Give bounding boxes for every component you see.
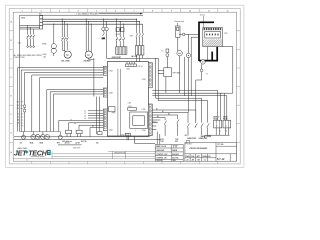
svg-text:10: 10 <box>84 111 86 113</box>
svg-text:M1 M2: M1 M2 <box>116 34 121 36</box>
svg-text:20A 1 RED: 20A 1 RED <box>61 60 70 63</box>
svg-text:CN6: CN6 <box>126 68 130 70</box>
svg-text:PROJECT: PROJECT <box>185 143 192 145</box>
bottom bus wires <box>14 137 161 145</box>
transformer T1 <box>51 24 56 56</box>
wires to legend table <box>157 132 160 145</box>
svg-text:3: 3 <box>59 11 60 13</box>
wire right loop 4 <box>152 91 217 121</box>
svg-text:CONTROL 110V: CONTROL 110V <box>156 154 167 156</box>
connector CN8 <box>103 88 107 97</box>
fuse F1 F2 F3 <box>135 46 144 55</box>
svg-text:M: M <box>87 53 89 57</box>
wire M2 tail <box>89 58 94 96</box>
heater element R1 striped <box>116 47 127 55</box>
svg-text:GR: GR <box>185 135 187 137</box>
svg-text:TECH: TECH <box>28 148 47 157</box>
wires CN6 feed <box>127 62 135 64</box>
wire supply entry L3 <box>20 28 40 30</box>
timer EPTIMEL box <box>164 68 172 77</box>
sensor block A3 <box>98 132 102 135</box>
svg-text:CONDUCTORS: CONDUCTORS <box>14 57 25 59</box>
svg-text:CN4: CN4 <box>142 130 146 132</box>
svg-text:24: 24 <box>74 123 76 125</box>
svg-text:110V: 110V <box>160 139 163 141</box>
switch S2 <box>22 132 26 140</box>
relay contact K3 <box>164 121 166 136</box>
thermostat TH1 <box>58 132 62 140</box>
inline connector J2 <box>24 109 26 112</box>
connector CN5 <box>148 104 152 136</box>
svg-text:TGR TOP: TGR TOP <box>73 147 81 149</box>
circuit breaker CB1 <box>27 25 35 47</box>
relay contact K8 <box>158 96 209 136</box>
svg-text:CN 10: CN 10 <box>137 66 142 68</box>
svg-text:10: 10 <box>189 11 191 13</box>
svg-text:2B: 2B <box>17 123 19 125</box>
svg-text:1A 6.3A: 1A 6.3A <box>131 55 138 58</box>
display module <box>130 112 148 128</box>
svg-text:20A RED: 20A RED <box>84 60 92 63</box>
relay contact K6 <box>195 122 197 128</box>
svg-text:4: 4 <box>78 11 79 13</box>
bus line 2 <box>43 21 140 23</box>
connector CN9 <box>148 63 152 88</box>
heating element E1 <box>203 28 223 47</box>
float switch A2 <box>76 129 82 136</box>
contactor K1 <box>61 19 68 51</box>
svg-text:CB1: CB1 <box>18 42 21 44</box>
border zone ticks <box>9 9 240 164</box>
junction dots <box>53 19 140 25</box>
wire sensor leader <box>203 16 205 28</box>
wire vert to RL2 <box>223 93 225 120</box>
svg-text:110 TGP: 110 TGP <box>81 141 87 143</box>
door switch S1 <box>176 23 181 51</box>
wires CN2 stubs <box>59 111 104 137</box>
zone numbers <box>11 11 229 155</box>
svg-text:2: 2 <box>41 11 42 13</box>
relay contact K4 <box>177 119 179 135</box>
svg-text:PP3: PP3 <box>112 113 115 115</box>
float switch A1 <box>66 129 72 136</box>
fuse FU1 circle <box>102 19 105 40</box>
svg-text:2: 2 <box>226 125 227 127</box>
svg-text:12: 12 <box>84 113 86 115</box>
svg-text:16: 16 <box>84 118 86 120</box>
svg-text:JET: JET <box>14 148 27 157</box>
svg-text:TTT: TTT <box>173 144 178 148</box>
legend table <box>155 145 183 162</box>
relay coil Y4 circle <box>201 60 205 64</box>
fuse F1 group wires <box>107 19 159 62</box>
svg-text:737-100: 737-100 <box>217 144 223 146</box>
wires EPTIMEL <box>156 58 166 96</box>
heater contact K2 <box>116 19 125 47</box>
title block <box>185 143 237 162</box>
svg-text:TH1: TH1 <box>57 142 60 144</box>
wires internal verticals <box>118 69 121 136</box>
solenoid Y1 <box>166 49 169 68</box>
pressure switch B3 <box>41 132 46 140</box>
title texts <box>186 144 224 162</box>
svg-text:14: 14 <box>84 115 86 117</box>
pressure switch B4 <box>45 134 50 139</box>
wire component tie <box>20 131 61 133</box>
wire neutral bus L <box>20 15 143 131</box>
wires relay drops <box>205 128 230 138</box>
wire arrow feed <box>99 13 143 15</box>
wire supply entry L2 <box>20 26 40 28</box>
labels bottom components <box>20 141 99 144</box>
svg-text:L1/L2 (BRN) 3 PH 208V: L1/L2 (BRN) 3 PH 208V <box>77 13 99 15</box>
svg-text:B2: B2 <box>17 101 19 103</box>
svg-text:WIRE COLOR: WIRE COLOR <box>156 146 167 148</box>
svg-text:BLU/YEL: BLU/YEL <box>172 158 179 160</box>
border frame inner <box>13 12 236 161</box>
svg-text:FUSE: FUSE <box>43 54 47 56</box>
svg-text:Remote tank: Remote tank <box>175 20 185 23</box>
relay contact K7 <box>156 93 204 135</box>
svg-text:CN9: CN9 <box>142 79 146 81</box>
motor M2 wires <box>86 19 91 51</box>
svg-text:2: 2 <box>216 125 217 127</box>
svg-text:M: M <box>66 53 68 57</box>
svg-text:GRN: GRN <box>172 160 175 162</box>
connector CN1 <box>125 133 130 136</box>
svg-text:1: 1 <box>22 11 23 13</box>
wires right column drops <box>180 34 202 121</box>
svg-text:8: 8 <box>152 11 153 13</box>
revision strip lines <box>13 151 155 161</box>
labels relay wires <box>160 130 227 142</box>
svg-text:CN2: CN2 <box>109 130 113 132</box>
wires CN8 left loops <box>47 90 104 132</box>
connector CN3 <box>103 66 107 75</box>
wires CN3 left loops <box>18 68 104 132</box>
wire element internal <box>207 47 209 61</box>
small box above title <box>186 141 189 144</box>
pressure switch B2 <box>35 134 40 139</box>
legend texts <box>156 146 179 162</box>
motor M2 <box>85 51 92 58</box>
connector PP3 <box>109 107 115 112</box>
svg-text:DESCRIPTION: DESCRIPTION <box>114 152 126 154</box>
control board A1 <box>107 62 148 136</box>
svg-text:CN3: CN3 <box>109 71 113 73</box>
svg-text:A3: A3 <box>96 141 98 144</box>
logo JET-TECH <box>14 148 51 158</box>
wires CN5 fan-out <box>152 110 196 130</box>
connector CN2 <box>103 109 107 131</box>
arrowhead <box>140 13 142 15</box>
svg-text:Sensor: Sensor <box>200 13 206 16</box>
svg-text:DRN: DRN <box>208 136 211 138</box>
svg-text:8-7-12: 8-7-12 <box>217 157 225 161</box>
sheet edge <box>5 5 244 167</box>
wire right loop 2 <box>152 96 227 121</box>
element hatch <box>203 39 222 46</box>
svg-text:CN8: CN8 <box>109 92 113 94</box>
wire element feed <box>179 33 233 46</box>
bus line 3 <box>43 23 143 25</box>
svg-text:6: 6 <box>17 125 18 127</box>
relay contact K5 <box>187 122 189 136</box>
pump P1 <box>177 51 182 56</box>
fuse FU2 circle <box>105 22 108 59</box>
svg-text:S2: S2 <box>20 142 22 144</box>
svg-text:12: 12 <box>227 11 229 13</box>
svg-text:CN1: CN1 <box>121 135 125 137</box>
svg-text:9: 9 <box>171 11 172 13</box>
svg-text:24: 24 <box>17 114 19 116</box>
svg-text:11: 11 <box>208 11 210 13</box>
bus line 1 <box>43 18 137 20</box>
labels wire numbers left <box>17 101 20 127</box>
svg-text:BLK/WHT: BLK/WHT <box>172 154 179 156</box>
terminal block TB1 <box>40 16 43 29</box>
svg-text:6: 6 <box>115 11 116 13</box>
svg-text:A2 HI: A2 HI <box>75 141 80 144</box>
relay coil Y3 circle <box>186 53 190 57</box>
wires CN1 drops <box>127 136 155 144</box>
wire right loop 1 <box>152 47 233 94</box>
wire supply entry L1 <box>20 24 40 26</box>
svg-text:B10: B10 <box>175 141 178 143</box>
wire label leaders <box>21 102 24 126</box>
connector CN6 <box>126 64 137 67</box>
motor M1 <box>64 51 71 58</box>
wire verticals mid-left <box>32 75 104 134</box>
booster enclosure thick outline <box>199 22 217 61</box>
svg-text:L: L <box>135 130 136 132</box>
svg-text:CN7: CN7 <box>128 102 132 104</box>
border frame outer <box>9 9 240 164</box>
labels CN5 wire numbers <box>156 107 170 118</box>
labels CN2 wire numbers <box>84 111 86 120</box>
indicator small circle <box>200 69 203 72</box>
wire right loop 3 <box>182 92 222 94</box>
svg-text:14: 14 <box>17 117 19 119</box>
svg-text:5: 5 <box>96 11 97 13</box>
relay box RL2 <box>223 120 231 128</box>
svg-text:B6: B6 <box>17 108 19 110</box>
connector PFV <box>128 108 137 111</box>
svg-text:B4: B4 <box>17 105 19 107</box>
svg-text:Y2: Y2 <box>206 73 208 75</box>
svg-text:1:1: 1:1 <box>204 160 206 162</box>
aux fuse box FB2 <box>121 28 124 32</box>
svg-text:Y1: Y1 <box>161 51 163 53</box>
pressure switch B1 <box>31 132 36 140</box>
relay box RL1 <box>214 120 222 128</box>
svg-text:7: 7 <box>134 11 135 13</box>
inline connector J1 <box>24 105 26 108</box>
svg-text:GROUND: GROUND <box>156 160 164 162</box>
svg-text:TB1: TB1 <box>39 14 42 16</box>
svg-text:CN5: CN5 <box>142 109 146 111</box>
svg-text:14: 14 <box>70 120 72 122</box>
svg-text:EPTIMEL: EPTIMEL <box>173 73 181 75</box>
aux fuse box FB1 <box>116 28 119 32</box>
